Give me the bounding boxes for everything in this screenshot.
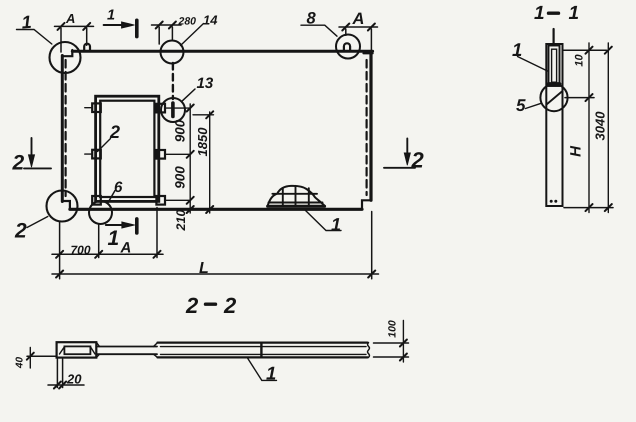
leader label 8 [301,25,337,36]
dimension chain 1850 [193,112,214,213]
right edge hidden dashed line [366,60,368,195]
detail circle 13 [161,98,185,122]
detail circle 1 (top-left corner) [50,42,81,73]
anchor stub left middle [85,153,92,155]
extension line opening right [156,208,158,258]
svg-text:2: 2 [223,293,237,318]
svg-text:210: 210 [174,210,188,232]
dimension connector right middle [165,153,190,155]
section mark 2 left [31,138,33,161]
neck bottom line [96,353,157,355]
dimension 100 extension top [374,342,409,344]
extension top [564,49,607,51]
weld diagonal in circle 5 [547,91,563,105]
left block outer [57,342,97,357]
weld dots bottom [550,200,553,203]
extension line opening left [98,224,100,257]
section mark 2 right [406,139,408,159]
anchor plate left middle [92,150,101,159]
lifting loop right [344,43,350,51]
svg-text:2: 2 [109,122,120,142]
svg-text:20: 20 [66,372,82,387]
section mark 1 top [104,24,126,26]
vertical dimension chain 900/900/210 [189,104,191,213]
svg-text:2: 2 [12,152,25,175]
dimension A top-left [55,25,94,27]
opening outer rectangle [96,96,159,201]
svg-text:100: 100 [387,320,399,338]
svg-text:H: H [568,145,585,157]
detail circle 6 (opening corner) [89,201,112,224]
svg-text:6: 6 [114,179,123,196]
extension line panel left [59,222,61,279]
svg-text:1: 1 [108,227,120,250]
leader label 5 [526,103,542,108]
hump base [268,205,325,208]
hidden dashed axis line 14-13 [172,63,174,99]
svg-text:L: L [199,260,209,277]
svg-text:900: 900 [173,119,188,142]
dimension 40 [27,355,56,357]
anchor plate left top [92,103,101,112]
detail circle 2 (bottom-left corner) [47,191,78,222]
detail circle 5 [540,84,567,111]
extension bottom [564,207,613,209]
section mark 1 bottom [106,224,127,226]
leader label 2 (corner detail) [27,217,48,228]
dimension connector right bottom [165,199,190,201]
svg-text:1: 1 [266,363,276,384]
svg-text:280: 280 [178,16,197,28]
neck top line [96,346,157,348]
left block taper marks [60,347,96,354]
main block bottom edge [158,356,368,358]
anchor plate left bottom [92,196,101,205]
svg-text:3040: 3040 [593,111,608,141]
dimension line 3040 [607,43,609,213]
dimension line L [52,273,379,275]
leader label 13 [183,89,196,101]
leader label 1 (hump) [305,210,342,231]
svg-text:1: 1 [107,8,115,24]
svg-text:1: 1 [534,3,545,24]
dimension 20 line [48,384,84,386]
svg-text:2: 2 [411,148,425,173]
svg-text:14: 14 [203,13,218,28]
embedded channel inner [552,49,557,82]
leader label 6 [108,191,116,204]
svg-text:40: 40 [15,357,26,370]
extension line panel right [371,212,373,279]
main block inner bottom [161,353,367,355]
section 1-1 panel bar [546,44,562,206]
detail circle 8 (top-right loop) [336,35,360,59]
panel top-left corner notch [62,50,72,56]
dimension line 700 / A [52,253,163,255]
svg-text:1: 1 [569,3,580,24]
title 1-1 [549,11,559,14]
panel bottom edge [70,208,362,211]
embedded channel bottom plate [549,82,560,86]
thick dash end inside circle 13 [171,103,175,117]
hump inner rib vertical 3 [308,188,310,206]
leader label 1 (channel) [518,57,549,72]
right end break mark [368,343,370,358]
svg-text:700: 700 [71,243,91,257]
panel bottom-left corner notch [62,201,70,209]
joint divider [260,343,262,357]
embedded channel outer [549,46,560,87]
anchor plate right bottom [156,196,165,205]
svg-text:10: 10 [574,54,586,67]
title 2-2 [206,303,216,306]
vent hump outline [268,186,325,206]
panel right edge [369,55,372,201]
dimension 20 extensions [57,359,62,388]
svg-text:A: A [352,10,365,28]
svg-text:13: 13 [197,75,214,92]
leader label 2 (opening anchors) [98,139,111,152]
panel bottom-right corner notch [362,200,371,209]
extension from circle 5 [565,97,594,99]
svg-text:1: 1 [21,12,32,33]
lifting loop left [84,44,90,51]
dimension connector right top [165,107,190,109]
hump inner rib horizontal 1 [272,193,317,195]
dimension 100 extension bottom [374,356,409,358]
opening inner rectangle [100,101,154,197]
panel left edge [61,56,64,202]
dimension line 10 / H [588,43,590,213]
dimension 100 line [402,321,404,363]
neck transition right [154,343,158,358]
hump inner rib vertical 2 [295,186,297,206]
panel top-right corner notch [364,52,373,54]
dimension A top-right [339,26,378,28]
detail circle 14 [161,41,184,64]
leader label 1 (section 2-2) [248,358,277,380]
svg-text:A: A [120,240,132,257]
svg-text:2: 2 [185,293,199,318]
svg-text:1: 1 [331,215,341,235]
main block inner top [161,346,367,348]
svg-text:1850: 1850 [195,127,210,157]
anchor plate right middle [156,150,165,159]
dimension 280 [152,24,182,26]
svg-text:900: 900 [173,166,188,189]
svg-text:1: 1 [512,39,522,60]
left edge hidden dashed line [64,60,66,196]
anchor plate right top [156,104,165,113]
panel top edge [72,50,372,53]
left block inner channel [64,346,90,354]
anchor stub left top [85,107,92,109]
leader label 1 top-left [17,30,52,45]
hump inner rib horizontal 2 [269,202,323,204]
svg-text:8: 8 [307,10,317,28]
hump inner rib vertical 1 [282,189,284,207]
svg-text:2: 2 [14,220,27,243]
neck transition left [96,342,99,357]
leader label 14 [181,24,204,46]
pin on top [552,29,554,44]
svg-text:5: 5 [516,96,526,115]
main block top edge [158,342,368,344]
svg-text:A: A [65,11,75,26]
